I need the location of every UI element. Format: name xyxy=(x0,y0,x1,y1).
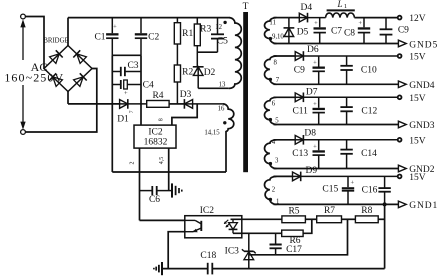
svg-text:1: 1 xyxy=(344,3,347,10)
label C5 xyxy=(217,37,228,47)
wire C5 to R3 bottom link xyxy=(197,51,217,53)
capacitor C7 xyxy=(314,18,326,44)
label C15 xyxy=(322,184,338,194)
svg-text:R5: R5 xyxy=(288,207,299,217)
terminal 15V section3 xyxy=(398,95,402,99)
IC U1 box 16832 xyxy=(134,125,176,148)
label BRIDGE xyxy=(43,37,68,44)
label R2 xyxy=(182,68,193,78)
label C16 xyxy=(362,185,378,195)
opto phototransistor xyxy=(185,220,202,232)
label 160~250V xyxy=(4,71,64,85)
inductor L1 xyxy=(326,10,355,17)
bridge rectifier diamond xyxy=(44,46,92,92)
label T xyxy=(243,2,249,12)
wire section2 bottom xyxy=(274,83,400,85)
resistor R6 xyxy=(282,230,303,236)
wire bridge top corner to DC rail xyxy=(67,18,69,46)
wire R8 right to GND1 vertical xyxy=(378,218,384,220)
svg-text:C10: C10 xyxy=(361,66,377,76)
svg-text:15V: 15V xyxy=(409,94,426,104)
capacitor C15 xyxy=(342,176,355,204)
primary winding 16-14,15 xyxy=(223,104,234,172)
secondary winding section 3 xyxy=(264,97,276,124)
label C13 xyxy=(292,149,308,159)
svg-text:14,15: 14,15 xyxy=(204,129,220,136)
ground arrow GND4 xyxy=(398,81,406,88)
pin label 13 xyxy=(219,82,226,89)
svg-text:2: 2 xyxy=(272,186,276,193)
capacitor C13 xyxy=(313,140,325,169)
svg-text:11: 11 xyxy=(269,20,276,27)
terminal 15V section4 xyxy=(398,138,402,142)
label C7 xyxy=(331,27,342,37)
svg-text:8: 8 xyxy=(159,118,165,121)
svg-text:D9: D9 xyxy=(305,166,317,176)
pin label 2 xyxy=(130,162,136,165)
label C11 xyxy=(292,107,308,117)
label C12 xyxy=(361,107,377,117)
label C2 xyxy=(148,33,159,43)
diode D3 xyxy=(184,99,223,109)
wire section3 bottom xyxy=(274,124,400,126)
svg-text:D6: D6 xyxy=(307,45,319,55)
junction dot GND1 node xyxy=(383,202,387,206)
capacitor C9 output xyxy=(380,18,393,44)
label D6 xyxy=(307,45,319,55)
svg-text:C8: C8 xyxy=(344,29,355,39)
wire C2 node down to IC pin xyxy=(140,55,142,125)
svg-text:15V: 15V xyxy=(409,136,426,146)
winding dot section 3 xyxy=(269,118,272,121)
label R3 xyxy=(200,25,211,35)
label D4 xyxy=(300,3,312,13)
label IC2 optocoupler xyxy=(200,206,215,216)
AC input terminal bottom xyxy=(21,130,26,135)
svg-text:R1: R1 xyxy=(182,29,193,39)
capacitor C4 xyxy=(112,80,141,97)
terminal 15V section5 xyxy=(398,175,402,179)
label R1 xyxy=(182,29,193,39)
terminal 15V section2 xyxy=(398,54,402,58)
svg-text:C14: C14 xyxy=(361,149,377,159)
pin label 7 mark xyxy=(129,110,135,113)
capacitor C8 xyxy=(358,18,370,44)
capacitor C6 xyxy=(140,186,173,195)
svg-text:5: 5 xyxy=(275,118,279,125)
resistor R8 xyxy=(355,216,378,223)
svg-text:15V: 15V xyxy=(409,53,426,63)
label IC3 xyxy=(225,246,240,256)
ground arrow GND5 xyxy=(398,40,406,47)
svg-text:C12: C12 xyxy=(361,107,377,117)
terminal 12V xyxy=(398,16,402,20)
capacitor C17 xyxy=(270,233,282,255)
svg-text:7: 7 xyxy=(129,110,135,113)
svg-text:R7: R7 xyxy=(324,206,335,216)
diode D4 xyxy=(299,13,325,23)
AC input terminal top xyxy=(21,14,26,19)
svg-text:+: + xyxy=(313,60,317,67)
capacitor C12 xyxy=(340,97,352,124)
capacitor C18 xyxy=(208,263,213,275)
bridge diode top-right arm xyxy=(73,50,86,63)
wire D5 to D4 xyxy=(289,17,299,19)
svg-text:R8: R8 xyxy=(361,206,372,216)
svg-text:C9: C9 xyxy=(294,66,305,76)
secondary winding section 5 xyxy=(264,176,276,204)
svg-text:D3: D3 xyxy=(180,90,192,100)
winding dot section 5 xyxy=(269,198,272,201)
svg-text:D7: D7 xyxy=(306,87,318,97)
wire LED anode to R5 xyxy=(231,218,282,220)
svg-text:+: + xyxy=(124,90,128,97)
svg-text:4,5: 4,5 xyxy=(159,157,165,165)
wire ground row left xyxy=(162,268,208,270)
bridge diode bottom-right arm xyxy=(74,73,87,86)
svg-text:16: 16 xyxy=(218,106,225,113)
wire top DC rail xyxy=(68,17,230,19)
pin label 7 xyxy=(276,77,280,84)
svg-text:3: 3 xyxy=(275,158,279,165)
pin label 1 xyxy=(276,198,279,205)
transformer core xyxy=(243,12,248,172)
svg-text:D8: D8 xyxy=(304,129,316,139)
wire bridge bottom corner down xyxy=(67,92,69,104)
svg-text:R3: R3 xyxy=(200,25,211,35)
diode D2 xyxy=(193,67,204,89)
svg-text:IC3: IC3 xyxy=(225,246,240,256)
svg-text:C7: C7 xyxy=(331,27,342,37)
opto LED xyxy=(229,219,238,233)
svg-text:9,10: 9,10 xyxy=(272,33,284,40)
label C9 output xyxy=(398,25,409,35)
wire L1 to 12V terminal xyxy=(354,17,399,19)
wire ref rail xyxy=(249,219,348,255)
label GND4 xyxy=(409,81,435,91)
wire section4 top xyxy=(274,139,296,141)
pin label 5 xyxy=(275,118,279,125)
winding dot section 1 xyxy=(269,37,272,40)
label R4 xyxy=(152,91,163,101)
winding dot section 4 xyxy=(269,162,272,165)
capacitor C14 xyxy=(340,140,352,169)
secondary winding section 1 xyxy=(265,18,277,44)
pin label 4 xyxy=(272,139,276,146)
ground secondary xyxy=(154,262,162,275)
ground primary xyxy=(172,183,182,197)
wire R4 to D3 xyxy=(169,103,184,105)
pin label 14,15 xyxy=(204,129,220,136)
pin label 12 xyxy=(215,24,222,31)
label C10 xyxy=(361,66,377,76)
svg-text:C15: C15 xyxy=(322,184,338,194)
capacitor C1 xyxy=(106,18,118,56)
svg-text:C4: C4 xyxy=(143,81,154,91)
wire C1-C2 bottom link xyxy=(112,54,141,56)
label D3 xyxy=(180,90,192,100)
wire D3 node to IC pin8 xyxy=(172,104,197,125)
pin label 16 xyxy=(218,106,225,113)
bridge diode bottom-left arm xyxy=(49,73,62,86)
svg-text:D4: D4 xyxy=(300,3,312,13)
label C4 xyxy=(143,81,154,91)
wire ground row right xyxy=(212,268,384,270)
svg-text:15V: 15V xyxy=(409,173,426,183)
svg-text:R2: R2 xyxy=(182,68,193,78)
secondary winding section 4 xyxy=(265,140,277,169)
label L1 xyxy=(336,0,347,10)
AC source arrow down xyxy=(21,85,25,129)
svg-text:+: + xyxy=(350,179,354,186)
wire section5 top xyxy=(274,175,293,177)
label 15V section3 xyxy=(409,94,426,104)
winding dot pin14-15 xyxy=(223,121,226,124)
diode D5 xyxy=(284,18,295,44)
svg-text:L: L xyxy=(336,0,342,9)
label R5 xyxy=(288,207,299,217)
wire R6 to divider xyxy=(303,219,312,233)
resistor R5 xyxy=(282,216,306,223)
label D1 xyxy=(117,115,129,125)
capacitor C5 xyxy=(211,18,224,53)
wire LED cathode line xyxy=(233,232,282,234)
resistor R3 xyxy=(194,18,200,67)
resistor R1 xyxy=(174,18,180,65)
svg-text:2: 2 xyxy=(130,162,136,165)
svg-text:D5: D5 xyxy=(297,28,309,38)
svg-text:D2: D2 xyxy=(204,68,216,78)
svg-text:+: + xyxy=(113,23,117,30)
wire section1 bottom xyxy=(274,43,400,45)
svg-text:16832: 16832 xyxy=(144,138,168,148)
svg-text:+: + xyxy=(313,143,317,150)
ground arrow GND3 xyxy=(398,121,406,128)
label C1 xyxy=(94,32,105,42)
label IC2 xyxy=(148,127,163,137)
wire opto collector left xyxy=(140,219,185,221)
optocoupler U2 box xyxy=(185,216,242,238)
svg-text:T: T xyxy=(243,2,249,12)
wire IC pin45 down xyxy=(168,148,170,191)
label 15V section4 xyxy=(409,136,426,146)
label D2 xyxy=(204,68,216,78)
label C14 xyxy=(361,149,377,159)
label 15V section2 xyxy=(409,53,426,63)
diode D6 xyxy=(295,51,399,61)
svg-text:IC2: IC2 xyxy=(148,127,163,137)
svg-text:12V: 12V xyxy=(409,14,426,24)
svg-text:GND5: GND5 xyxy=(409,40,438,50)
ground arrow GND2 xyxy=(398,165,406,172)
svg-text:C13: C13 xyxy=(292,149,308,159)
pin label 8 xyxy=(159,118,165,121)
svg-text:C2: C2 xyxy=(148,33,159,43)
svg-text:7: 7 xyxy=(276,77,280,84)
label AC xyxy=(31,60,48,74)
svg-text:8: 8 xyxy=(273,60,277,67)
wire opto emitter to ground row xyxy=(168,232,185,269)
label GND5 xyxy=(409,40,438,50)
svg-text:GND4: GND4 xyxy=(409,81,435,91)
resistor R7 xyxy=(317,216,342,223)
diode D1 xyxy=(120,99,147,109)
svg-text:GND1: GND1 xyxy=(409,201,438,211)
wire section3 top xyxy=(274,96,296,98)
AC source arrow up xyxy=(21,21,25,61)
wire primary return rail xyxy=(112,171,226,173)
label GND2 xyxy=(409,165,435,175)
capacitor C3 xyxy=(112,67,141,76)
label GND3 xyxy=(409,121,435,131)
wire section1 top xyxy=(274,17,289,19)
label R7 xyxy=(324,206,335,216)
label R6 xyxy=(289,236,300,246)
capacitor C16 xyxy=(378,176,390,204)
capacitor C2 xyxy=(135,18,147,56)
ground arrow GND1 xyxy=(398,201,406,208)
label C17 xyxy=(286,245,302,255)
label R8 xyxy=(361,206,372,216)
svg-text:C16: C16 xyxy=(362,185,378,195)
winding dot pin12 xyxy=(223,21,226,24)
pin label 6 xyxy=(272,100,276,107)
label D5 xyxy=(297,28,309,38)
svg-text:GND3: GND3 xyxy=(409,121,435,131)
svg-text:+: + xyxy=(358,20,362,27)
label C3 xyxy=(127,61,138,71)
svg-text:BRIDGE: BRIDGE xyxy=(43,37,68,44)
svg-text:D1: D1 xyxy=(117,115,129,125)
opto light arrows xyxy=(224,220,230,227)
pin label 3 xyxy=(275,158,279,165)
label GND1 xyxy=(409,201,438,211)
svg-text:C1: C1 xyxy=(94,32,105,42)
label 16832 xyxy=(144,138,168,148)
wire IC pin2 down xyxy=(139,148,141,220)
svg-text:6: 6 xyxy=(272,100,276,107)
svg-text:IC2: IC2 xyxy=(200,206,215,216)
wire GND1 vertical xyxy=(384,204,386,268)
wire R5 to R7 xyxy=(305,218,316,220)
svg-text:C6: C6 xyxy=(149,195,160,205)
svg-text:C18: C18 xyxy=(200,251,216,261)
wire pin13 to D2 anode xyxy=(198,87,229,89)
wire feedback row left xyxy=(68,103,120,105)
capacitor C9 xyxy=(313,56,325,84)
label D7 xyxy=(306,87,318,97)
svg-text:C11: C11 xyxy=(292,107,308,117)
svg-text:C9: C9 xyxy=(398,25,409,35)
svg-text:C5: C5 xyxy=(217,37,228,47)
wire section5 bottom xyxy=(274,203,400,205)
wire negative rail left xyxy=(111,55,113,172)
winding dot section 2 xyxy=(269,78,272,81)
label D9 xyxy=(305,166,317,176)
label 15V section5 xyxy=(409,173,426,183)
wire R7 to R8 xyxy=(342,218,356,220)
secondary winding section 2 xyxy=(265,56,277,84)
pin label 4,5 xyxy=(159,157,165,165)
diode D7 xyxy=(295,93,399,103)
IC3 zener xyxy=(242,233,256,268)
label C6 xyxy=(149,195,160,205)
label C9 xyxy=(294,66,305,76)
svg-text:C3: C3 xyxy=(127,61,138,71)
wire AC top terminal to bridge left xyxy=(25,17,44,69)
svg-text:C17: C17 xyxy=(286,245,302,255)
svg-text:12: 12 xyxy=(215,24,222,31)
wire AC bottom terminal to bridge right xyxy=(25,69,96,133)
capacitor C10 xyxy=(340,56,352,84)
label 12V xyxy=(409,14,426,24)
bridge diode top-left arm xyxy=(50,50,63,63)
svg-text:+: + xyxy=(314,20,318,27)
label C18 xyxy=(200,251,216,261)
capacitor C11 xyxy=(313,97,325,124)
wire section4 bottom xyxy=(274,168,400,170)
pin label 9,10 xyxy=(272,33,284,40)
label C8 xyxy=(344,29,355,39)
diode D8 xyxy=(295,135,399,145)
diode D9 xyxy=(293,172,400,182)
pin label 2 xyxy=(272,186,276,193)
primary winding 12-13 xyxy=(229,18,242,89)
svg-text:R4: R4 xyxy=(152,91,163,101)
label D8 xyxy=(304,129,316,139)
resistor R2 xyxy=(174,65,180,104)
pin label 8 xyxy=(273,60,277,67)
resistor R4 xyxy=(147,101,169,108)
svg-text:+: + xyxy=(313,101,317,108)
pin label 11 xyxy=(269,20,276,27)
wire section2 top xyxy=(274,55,296,57)
